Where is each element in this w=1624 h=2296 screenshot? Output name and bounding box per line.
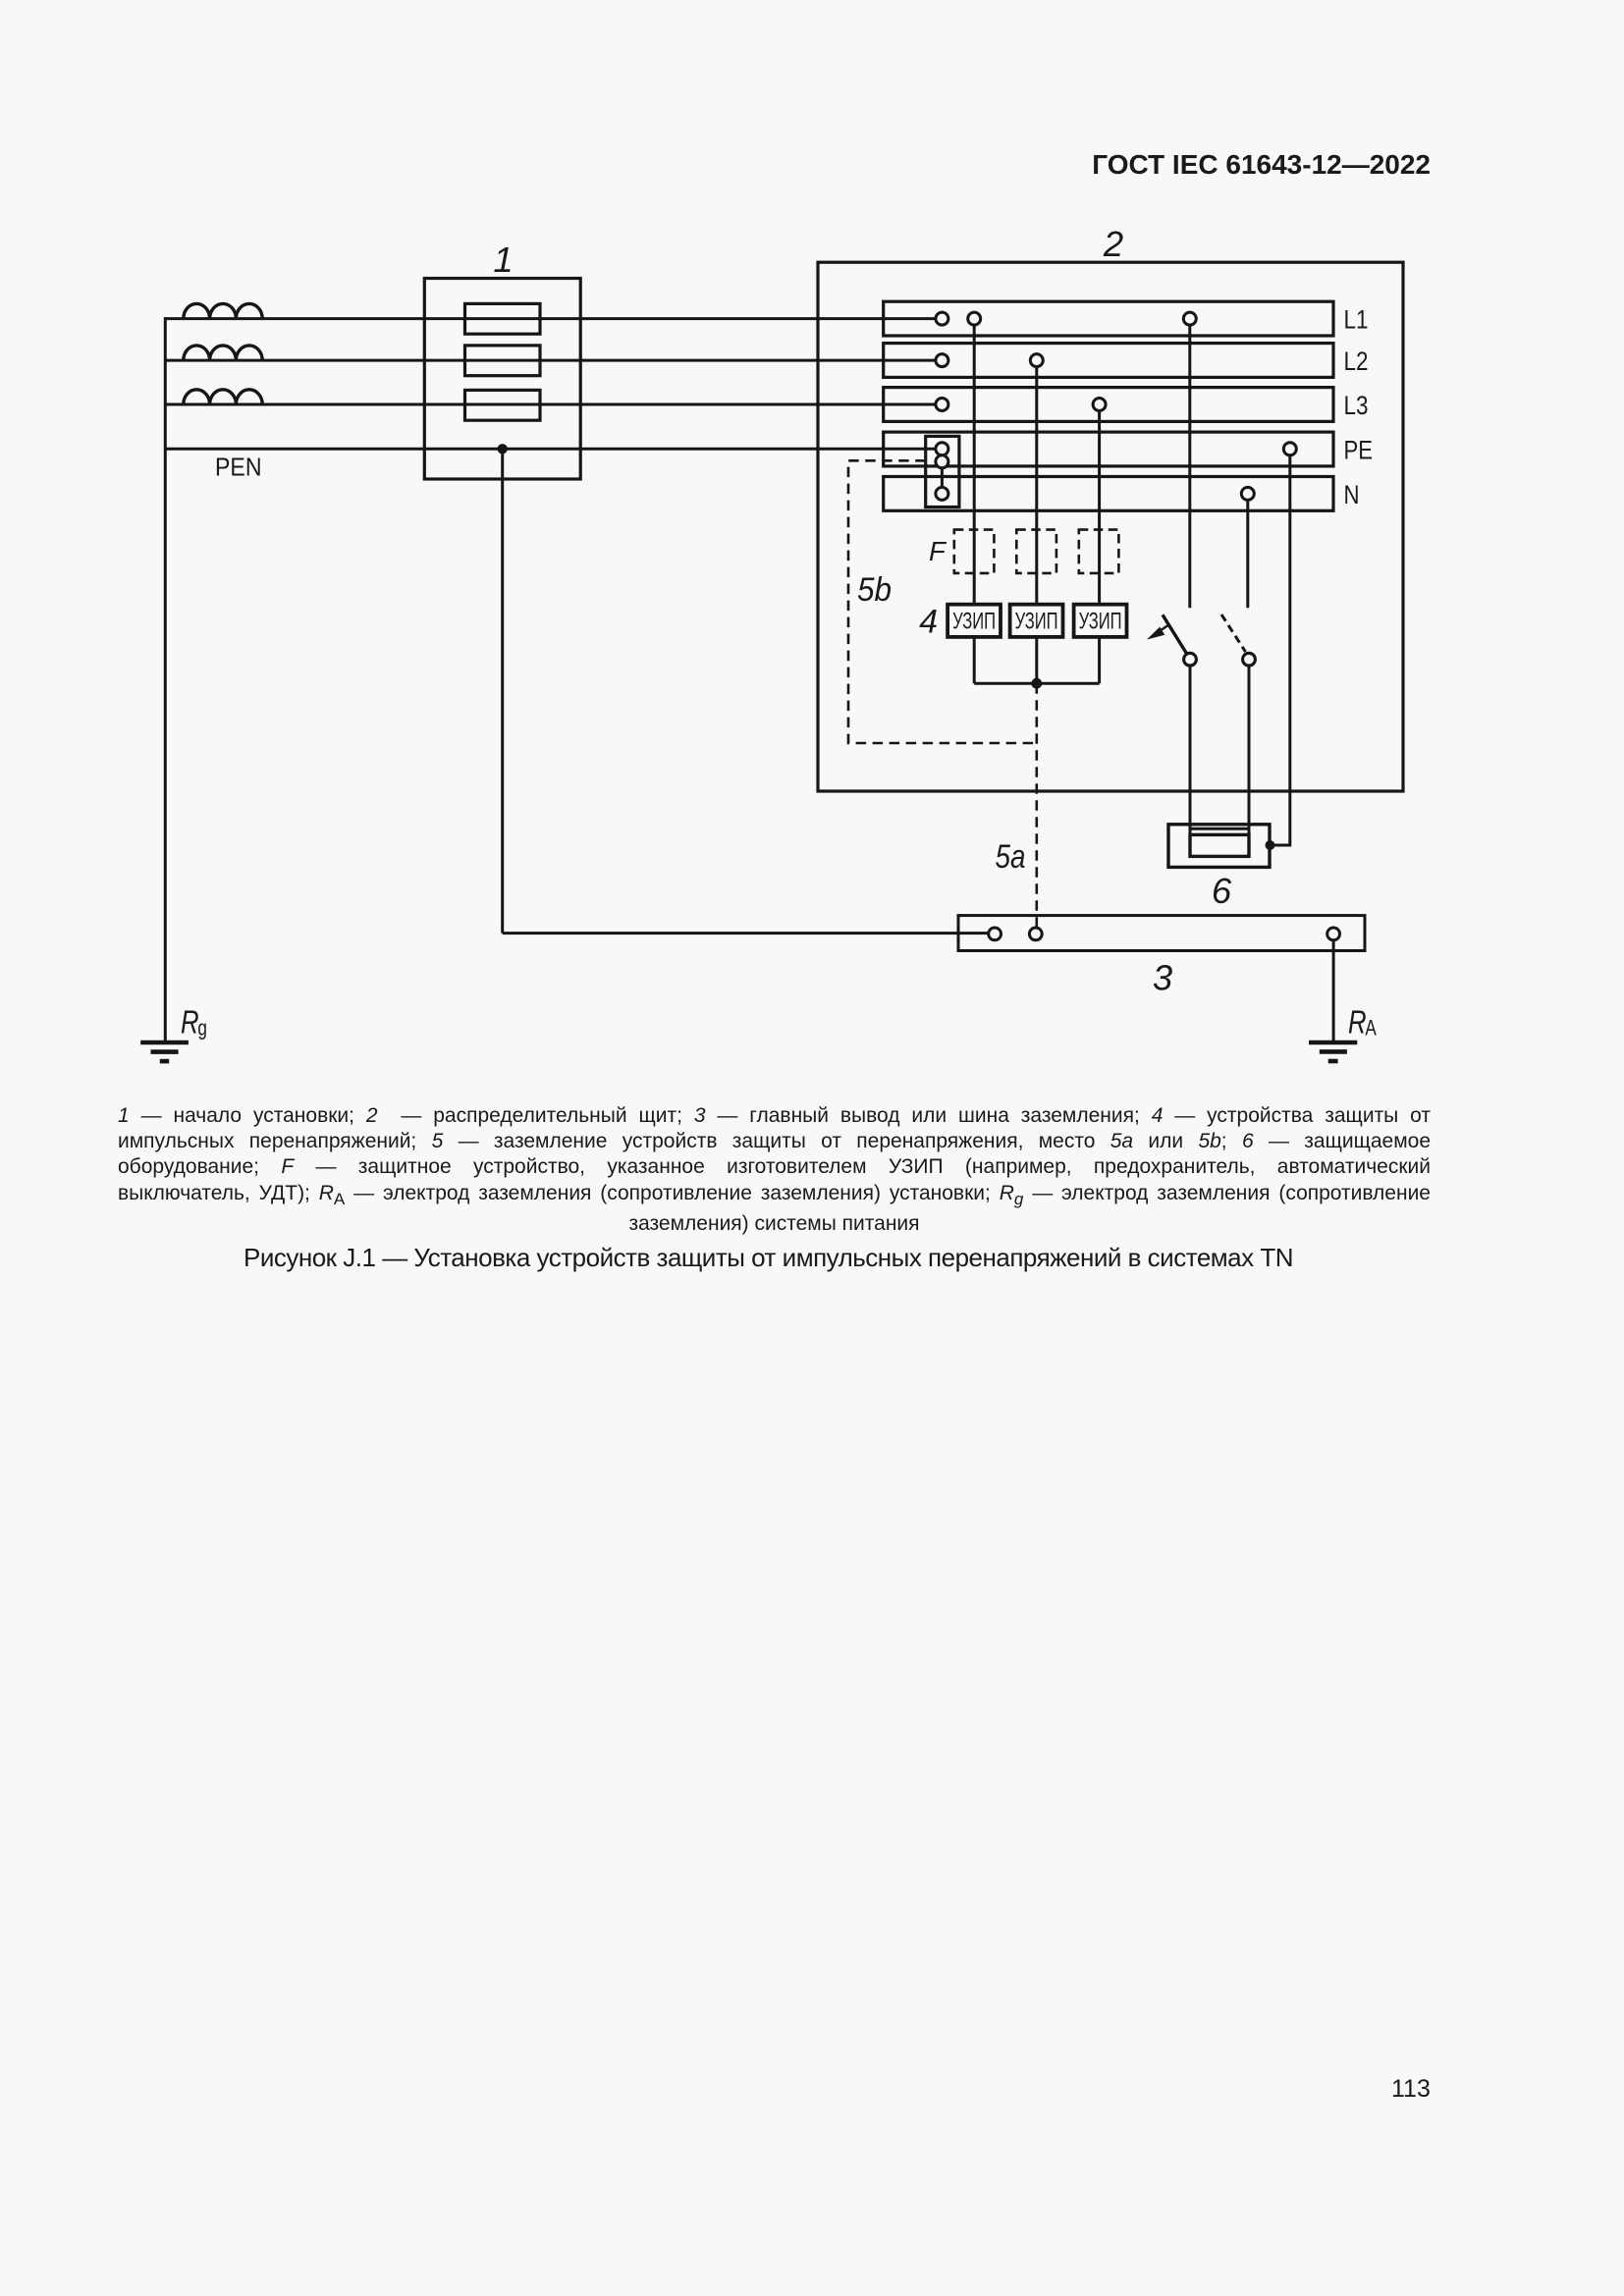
svg-text:1: 1: [493, 240, 513, 280]
SPD U2 (УЗИП): [1010, 605, 1063, 637]
terminal circle PE equipment feed: [1283, 443, 1296, 455]
wire switch 1 to equipment: [1189, 666, 1192, 856]
switch 2 contact circle: [1243, 653, 1256, 666]
busbar L1: [884, 301, 1333, 336]
svg-text:PEN: PEN: [215, 454, 262, 482]
svg-text:4: 4: [919, 604, 938, 641]
busbar N: [884, 477, 1333, 511]
svg-text:5a: 5a: [996, 838, 1026, 876]
terminal circle L3 SPD tap: [1093, 399, 1106, 411]
fuse F-L3 in box 1: [465, 390, 541, 420]
terminal circle L2 incoming: [936, 354, 948, 367]
wire L3 phase conductor: [164, 403, 936, 406]
junction SPD common: [1031, 678, 1042, 689]
equipment load rectangle: [1190, 834, 1249, 856]
terminal circle L3 incoming: [936, 399, 948, 411]
svg-text:L3: L3: [1344, 391, 1369, 420]
switch 2 blade (dashed): [1221, 614, 1246, 652]
terminal circle L1 incoming: [936, 312, 948, 325]
svg-text:УЗИП: УЗИП: [1079, 609, 1122, 635]
svg-text:N: N: [1344, 480, 1360, 509]
terminal circle on bar 3 left: [989, 928, 1001, 940]
disconnector F3 (dashed): [1079, 530, 1119, 573]
terminal circle L1 SPD tap: [968, 312, 981, 325]
bar 3: main earthing terminal: [958, 916, 1365, 951]
switch 1 blade: [1163, 614, 1187, 654]
terminal circle PEN on PE busbar: [936, 443, 948, 455]
terminal circle L1 switch feed: [1183, 312, 1196, 325]
terminal circle on N busbar left: [936, 487, 948, 500]
wire below SPD 3: [1098, 637, 1101, 683]
wire from L1 busbar down to switch 1: [1188, 325, 1191, 608]
wire from PEN junction to earthing bar 3: [503, 932, 989, 934]
terminal circle on bar 3 right: [1327, 928, 1340, 940]
fuse F-L2 in box 1: [465, 346, 541, 376]
wire SPD common bus: [974, 682, 1099, 685]
svg-text:PE: PE: [1344, 435, 1374, 464]
box 1: origin of installation: [424, 279, 580, 480]
equipment terminal bar: [1190, 828, 1249, 830]
ground symbol RA: [1309, 1041, 1357, 1045]
terminal circle L2 SPD tap: [1030, 354, 1043, 367]
svg-text:6: 6: [1212, 871, 1232, 911]
svg-text:2: 2: [1103, 224, 1123, 264]
wire from PE busbar down to protected equipment: [1270, 455, 1290, 845]
fuse F-L1 in box 1: [465, 303, 541, 334]
wire SPD tap from L2 busbar down to SPD 2: [1035, 367, 1038, 605]
svg-text:RA: RA: [1348, 1004, 1378, 1041]
terminal circle PEN link below: [936, 455, 948, 468]
wire switch 2 to equipment: [1248, 666, 1251, 856]
svg-text:L1: L1: [1344, 305, 1369, 335]
busbar L3: [884, 388, 1333, 422]
box 2: distribution board: [818, 262, 1403, 791]
wire bar 3 to earth electrode RA: [1332, 940, 1335, 1042]
label Rg: [181, 1005, 207, 1041]
svg-text:УЗИП: УЗИП: [952, 609, 996, 635]
junction on box 6 right edge: [1266, 840, 1275, 850]
inductor source coil L2: [184, 346, 262, 360]
SPD U1 (УЗИП): [947, 605, 1001, 637]
wire below SPD 2: [1035, 637, 1038, 683]
busbar PE: [884, 432, 1333, 466]
terminal circle N switch feed: [1241, 487, 1254, 500]
svg-text:5b: 5b: [857, 571, 892, 609]
wire: left supply vertical bus: [164, 317, 167, 1042]
inductor source coil L3: [184, 390, 262, 404]
switch 1 actuator arrow shaft: [1159, 625, 1169, 632]
busbar L2: [884, 344, 1333, 378]
junction on PEN in box 1: [498, 444, 508, 454]
switch 1 contact circle: [1184, 653, 1197, 666]
wire linking PE terminal to N terminal: [941, 461, 944, 494]
wire from PEN junction down: [501, 449, 504, 933]
switch 1 actuator arrowhead: [1147, 627, 1164, 640]
svg-text:F: F: [929, 536, 947, 566]
svg-text:УЗИП: УЗИП: [1015, 609, 1058, 635]
PEN terminal link box on PE and N busbars: [926, 436, 959, 507]
box 6: protected equipment outer: [1168, 825, 1270, 868]
svg-text:3: 3: [1153, 958, 1172, 998]
wire 5a earthing connection (dashed): [1036, 683, 1039, 928]
svg-text:Rg: Rg: [181, 1005, 207, 1041]
SPD U3 (УЗИП): [1074, 605, 1127, 637]
label RA: [1348, 1004, 1378, 1041]
wire L1 phase conductor: [164, 317, 936, 320]
wire SPD tap from L3 busbar down to SPD 3: [1098, 411, 1101, 605]
wire SPD tap from L1 busbar down to SPD 1: [973, 325, 976, 605]
wire from N busbar down to switch 2: [1246, 500, 1249, 608]
inductor source coil L1: [184, 303, 262, 318]
wire 5b earthing connection (dashed): [848, 460, 1037, 743]
terminal circle on bar 3 for 5a: [1029, 928, 1042, 940]
ground symbol Rg: [140, 1041, 189, 1045]
disconnector F1 (dashed): [954, 530, 995, 573]
svg-text:L2: L2: [1344, 347, 1369, 376]
wire below SPD 1: [973, 637, 976, 683]
disconnector F2 (dashed): [1016, 530, 1056, 573]
wire L2 phase conductor: [164, 359, 936, 362]
wire PEN conductor: [164, 448, 936, 451]
